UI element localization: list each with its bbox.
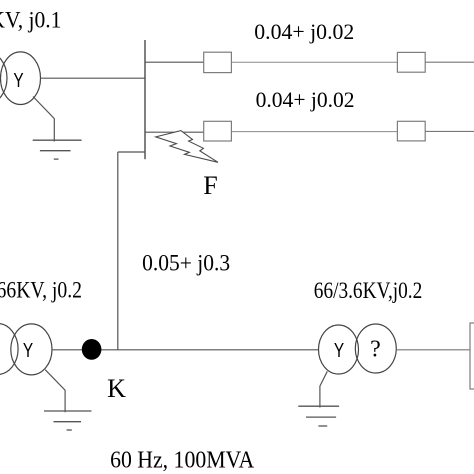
transformer T3 right circle: [355, 324, 396, 373]
wire: generator G1 to bus: [41, 77, 146, 79]
svg-text:?: ?: [370, 337, 381, 363]
node K (filled dot): [82, 339, 102, 360]
wire: T2 neutral diagonal lead: [45, 370, 65, 413]
svg-text:0.04+ j0.02: 0.04+ j0.02: [256, 87, 355, 112]
svg-text:11/66KV, j0.2: 11/66KV, j0.2: [0, 277, 82, 302]
wire: feeder 1 from Z2 to right edge: [425, 61, 474, 63]
load box (clipped at right edge): [470, 323, 474, 389]
svg-text:0.05+ j0.3: 0.05+ j0.3: [142, 251, 230, 277]
ground symbol (generator G1 neutral): [33, 140, 82, 159]
impedance box Z4: [397, 121, 425, 141]
wire: feeder 1 between Z1 and Z2: [231, 61, 397, 63]
wire: feeder 1 from bus to impedance Z1: [145, 61, 204, 63]
svg-text:Y: Y: [334, 339, 344, 362]
generator G1 left circle (clipped): [0, 52, 7, 104]
svg-text:K: K: [107, 374, 126, 403]
impedance box Z2: [397, 52, 425, 72]
svg-text:0.04+ j0.02: 0.04+ j0.02: [254, 19, 354, 44]
transformer T2 left circle (clipped): [0, 324, 18, 375]
transformer T3 left circle: [319, 325, 359, 374]
svg-text:F: F: [203, 171, 217, 200]
impedance box Z1: [204, 52, 232, 72]
wire: T2 to node K and onward to transformer T3: [52, 349, 318, 351]
wire: feeder 2 from Z4 to right edge: [425, 130, 474, 132]
ground symbol (T2 neutral): [44, 411, 92, 430]
generator G1 right circle: [1, 52, 41, 105]
bus B1 (vertical): [144, 40, 146, 159]
wire: 0.05+j0.3 vertical line: [117, 152, 119, 350]
wire: feeder 2 between Z3 and Z4: [231, 131, 397, 133]
wire: T3 to load: [396, 349, 470, 351]
svg-text:11/66KV, j0.1: 11/66KV, j0.1: [0, 8, 61, 33]
svg-text:Y: Y: [13, 69, 23, 92]
ground symbol (T3 neutral): [298, 406, 339, 426]
svg-text:66/3.6KV,j0.2: 66/3.6KV,j0.2: [314, 278, 423, 303]
wire: T3 neutral diagonal lead: [320, 371, 327, 407]
transformer T2 right circle: [11, 324, 52, 375]
wire: generator G1 neutral diagonal lead: [33, 97, 54, 142]
wire: feeder 2 from bus to impedance Z3: [145, 131, 204, 133]
impedance box Z3: [204, 121, 232, 141]
svg-text:Y: Y: [23, 339, 33, 362]
svg-text:60 Hz, 100MVA: 60 Hz, 100MVA: [110, 448, 255, 474]
wire: bus to 0.05+j0.3 line (horizontal connector): [118, 151, 145, 153]
fault F lightning bolt: [156, 131, 218, 163]
